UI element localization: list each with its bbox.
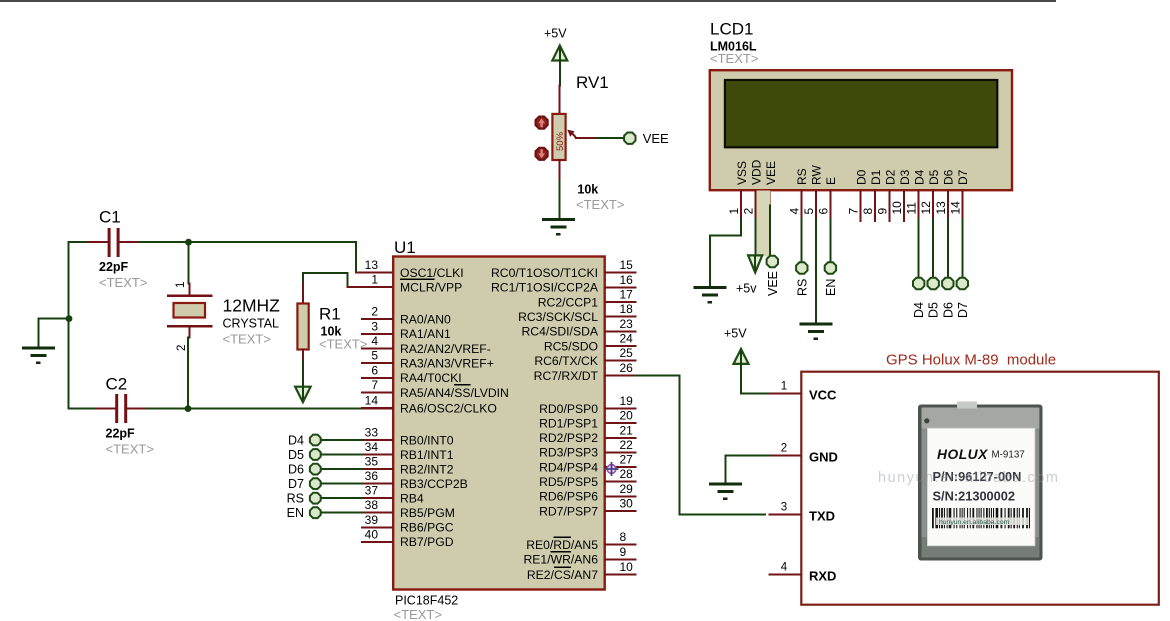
svg-text:2: 2 [176,345,188,351]
junction node C1/crystal [185,239,192,246]
svg-text:38: 38 [365,498,379,512]
svg-text:RC7/RX/DT: RC7/RX/DT [534,369,599,383]
svg-text:14: 14 [365,394,379,408]
svg-text:1: 1 [781,380,787,392]
svg-text:24: 24 [620,332,634,346]
RV1 bottom wire [558,160,560,181]
LCD1 LM016L body [710,70,1012,190]
svg-text:17: 17 [620,288,634,302]
terminal VEE (RV1) [624,133,635,144]
svg-text:D6: D6 [941,302,955,318]
svg-text:RE0/RD/AN5: RE0/RD/AN5 [526,538,598,552]
svg-text:RC4/SDI/SDA: RC4/SDI/SDA [521,325,598,339]
svg-text:VEE: VEE [766,271,780,296]
svg-text:6: 6 [371,363,378,377]
overline SS (RA5) [454,384,470,386]
svg-text:RB5/PGM: RB5/PGM [400,506,455,520]
svg-text:2: 2 [742,208,756,215]
terminal RS (port) [321,497,362,499]
svg-text:RE1/WR/AN6: RE1/WR/AN6 [524,553,599,567]
svg-text:3: 3 [371,319,378,333]
svg-text:8: 8 [861,208,875,215]
svg-text:RB0/INT0: RB0/INT0 [400,433,454,447]
VDD power band [757,191,771,257]
svg-text:D6: D6 [288,463,304,477]
terminal D4 (LCD) [913,278,924,289]
svg-text:22: 22 [620,438,634,452]
LCD pin 4 stub [800,190,802,219]
svg-text:50%: 50% [555,131,566,151]
wire LCD VDD [755,219,757,255]
svg-text:VDD: VDD [749,159,763,185]
overline MCLR [400,278,435,280]
svg-text:10: 10 [620,560,634,574]
svg-text:+5V: +5V [544,27,567,41]
svg-text:GND: GND [809,450,838,465]
LCD pin 1 stub [740,190,742,219]
svg-text:27: 27 [620,453,634,467]
svg-text:20: 20 [620,409,634,423]
potentiometer RV1 [558,86,560,114]
terminal D6 (LCD) [942,278,953,289]
svg-text:36: 36 [365,469,379,483]
wire LCD D6 [947,219,949,278]
pin 4 stub [362,348,392,350]
pin 30 stub [606,510,636,512]
GPS pin 3 stub [770,513,801,515]
crystal X1 12MHZ [167,294,213,297]
LCD pin 7 stub [860,190,862,221]
svg-text:40: 40 [365,527,379,541]
svg-text:D7: D7 [956,169,970,185]
svg-text:D5: D5 [927,302,941,318]
resistor R1 10k [302,284,304,304]
svg-text:+5V: +5V [724,327,747,341]
pin 39 stub [362,526,392,528]
svg-text:2: 2 [781,443,787,455]
capacitor C1 [69,241,89,243]
terminal RS (LCD) [796,262,807,273]
svg-text:<TEXT>: <TEXT> [576,197,624,212]
pin 29 stub [606,495,636,497]
terminal EN (port) [321,512,362,514]
pin 2 stub [362,318,392,320]
svg-text:hunyun.en.alibaba.com: hunyun.en.alibaba.com [939,519,1010,526]
pin 25 stub [606,360,636,362]
LCD pin 13 stub [947,190,949,219]
svg-text:RS: RS [795,168,809,185]
terminal D5 (port) [321,454,362,456]
pin 36 stub [362,483,392,485]
pin 40 stub [362,541,392,543]
terminal D5 (LCD) [928,278,939,289]
svg-text:C2: C2 [106,375,128,394]
pin 37 stub [362,497,392,499]
wire RC7/RX/DT to GPS TXD [636,376,766,515]
LCD pin 5 stub [815,190,817,219]
svg-text:RB4: RB4 [400,492,424,506]
svg-text:RS: RS [795,279,809,296]
svg-text:RA3/AN3/VREF+: RA3/AN3/VREF+ [400,357,494,371]
capacitor C2 [70,408,98,410]
svg-text:C1: C1 [99,208,121,227]
svg-text:10: 10 [890,201,904,215]
svg-text:D7: D7 [956,302,970,318]
pin 8 stub [606,544,636,546]
svg-text:D0: D0 [854,169,868,185]
LCD pin 10 stub [903,190,905,221]
wire +5V to GPS VCC [741,364,770,394]
svg-text:22pF: 22pF [99,260,129,274]
pin 5 stub [362,362,392,364]
svg-text:VSS: VSS [735,161,749,185]
svg-text:M-9137: M-9137 [992,450,1025,461]
pin 33 stub [362,439,392,441]
svg-text:13: 13 [934,201,948,215]
wire LCD D7 [961,219,963,278]
svg-text:RB6/PGC: RB6/PGC [400,521,454,535]
wire LCD RS [800,219,802,262]
svg-text:4: 4 [781,562,788,574]
LCD pin 9 stub [889,190,891,221]
svg-text:D4: D4 [912,302,926,318]
svg-text:RV1: RV1 [576,73,609,92]
svg-text:37: 37 [365,484,379,498]
LCD pin 3 stub [769,190,771,205]
svg-text:16: 16 [620,273,634,287]
terminal EN (LCD) [825,262,836,273]
svg-text:<TEXT>: <TEXT> [99,275,147,290]
svg-text:CRYSTAL: CRYSTAL [223,317,280,331]
svg-text:7: 7 [847,208,861,215]
svg-text:RXD: RXD [809,569,836,584]
wire crystal bottom net [189,327,191,338]
junction node C2/crystal [185,405,192,412]
ground left [22,348,55,363]
pin 3 stub [362,333,392,335]
pin 23 stub [606,330,636,332]
svg-text:U1: U1 [394,238,416,257]
svg-text:26: 26 [620,361,634,375]
svg-text:hunyun.en.alibaba.com: hunyun.en.alibaba.com [878,470,1059,486]
svg-text:D7: D7 [288,477,304,491]
LCD pin 6 stub [829,190,831,219]
svg-text:D5: D5 [927,169,941,185]
svg-text:34: 34 [365,440,379,454]
svg-text:EN: EN [287,506,304,520]
LCD pin 12 stub [932,190,934,219]
svg-text:25: 25 [620,346,634,360]
pin 34 stub [362,454,392,456]
pin 18 stub [606,316,636,318]
svg-text:GPS Holux M-89 module: GPS Holux M-89 module [886,352,1056,369]
svg-text:3: 3 [781,501,787,513]
LCD screen [725,80,997,147]
svg-text:VCC: VCC [809,387,837,402]
GPS Holux module photo [878,402,1059,561]
svg-text:RE2/CS/AN7: RE2/CS/AN7 [527,568,598,582]
terminal D7 (LCD) [957,278,968,289]
pin 6 stub [362,377,392,379]
svg-text:<TEXT>: <TEXT> [319,337,367,352]
LCD pin 14 stub [961,190,963,219]
svg-text:RA6/OSC2/CLKO: RA6/OSC2/CLKO [400,401,497,415]
pin 26 stub [606,375,636,377]
svg-text:6: 6 [816,208,830,215]
svg-text:21: 21 [620,423,634,437]
svg-text:12: 12 [919,201,933,215]
svg-text:+5v: +5v [736,282,757,296]
pin 9 stub [606,558,636,560]
svg-text:1: 1 [175,282,187,288]
svg-text:RC6/TX/CK: RC6/TX/CK [534,354,598,368]
svg-text:LCD1: LCD1 [710,20,753,39]
crosshair origin marker [605,462,619,476]
svg-text:RD5/PSP5: RD5/PSP5 [539,475,598,489]
pin 24 stub [606,345,636,347]
pin 19 stub [606,408,636,410]
svg-text:RD0/PSP0: RD0/PSP0 [539,402,598,416]
svg-text:12MHZ: 12MHZ [223,296,281,316]
RV1 up button [536,117,548,129]
pin 10 stub [606,574,636,576]
svg-text:23: 23 [620,317,634,331]
wire RV1 wiper to VEE [576,137,596,139]
wire OSC2 net to pin 14 [188,408,362,410]
GPS module outline [801,372,1159,605]
svg-text:D6: D6 [942,169,956,185]
GPS pin 4 stub [770,574,801,576]
overline CS (RE2) [554,566,571,568]
svg-text:RB7/PGD: RB7/PGD [400,535,454,549]
svg-text:RD4/PSP4: RD4/PSP4 [539,460,598,474]
svg-text:E: E [824,177,838,185]
svg-text:D3: D3 [898,169,912,185]
pin 35 stub [362,468,392,470]
svg-text:8: 8 [620,530,627,544]
svg-text:5: 5 [371,349,378,363]
RV1 down button [536,148,548,160]
power arrow down (R1 bottom) [295,387,311,403]
svg-text:EN: EN [824,279,838,296]
svg-text:RD2/PSP2: RD2/PSP2 [539,431,598,445]
svg-text:29: 29 [620,482,634,496]
svg-text:<TEXT>: <TEXT> [106,442,154,457]
pin 16 stub [606,286,636,288]
terminal D7 (port) [321,483,362,485]
svg-text:RA2/AN2/VREF-: RA2/AN2/VREF- [400,342,491,356]
svg-text:<TEXT>: <TEXT> [394,607,442,621]
pin 21 stub [606,437,636,439]
svg-text:R1: R1 [319,305,341,324]
svg-text:11: 11 [905,202,919,215]
svg-text:RA4/T0CKI: RA4/T0CKI [400,371,462,385]
svg-text:D2: D2 [883,169,897,185]
svg-text:RA1/AN1: RA1/AN1 [400,327,451,341]
svg-text:RD1/PSP1: RD1/PSP1 [539,416,598,430]
terminal D6 (port) [321,468,362,470]
svg-text:RB3/CCP2B: RB3/CCP2B [400,477,468,491]
wire LCD E [829,219,831,262]
svg-text:D4: D4 [288,434,304,448]
ground LCD VSS [694,288,727,303]
svg-text:28: 28 [620,467,634,481]
svg-text:9: 9 [876,208,890,215]
svg-text:18: 18 [620,302,634,316]
svg-text:13: 13 [365,258,379,272]
wire crystal top net [188,242,190,283]
svg-text:VEE: VEE [643,131,669,146]
svg-text:D4: D4 [913,169,927,185]
svg-text:RD7/PSP7: RD7/PSP7 [539,504,598,518]
svg-text:OSC1/CLKI: OSC1/CLKI [400,266,464,280]
wire GPS GND to ground [726,456,770,484]
wire LCD VSS to ground [710,219,741,287]
svg-text:9: 9 [620,545,627,559]
svg-text:4: 4 [371,334,378,348]
svg-text:D5: D5 [288,448,304,462]
pin 7 stub [362,392,392,394]
svg-text:MCLR/VPP: MCLR/VPP [400,280,462,294]
svg-text:RA5/AN4/SS/LVDIN: RA5/AN4/SS/LVDIN [400,386,509,400]
wire OSC1 net to pin 13 [189,242,357,272]
pin 15 stub [606,272,636,274]
LCD pin 8 stub [874,190,876,221]
overline WR (RE1) [551,551,571,553]
node junction left rail [66,315,73,322]
terminal VEE (LCD) [767,256,778,267]
svg-text:10k: 10k [577,183,598,197]
svg-text:RC0/T1OSO/T1CKI: RC0/T1OSO/T1CKI [491,266,598,280]
pin 14 stub [362,407,392,409]
ground RV1 [542,220,575,235]
svg-text:RB2/INT2: RB2/INT2 [400,462,454,476]
svg-text:RC3/SCK/SCL: RC3/SCK/SCL [518,310,598,324]
svg-text:5: 5 [802,208,816,215]
svg-text:PIC18F452: PIC18F452 [395,594,458,608]
svg-text:4: 4 [787,208,801,215]
pin 38 stub [362,512,392,514]
RV1 wiper arrow [571,133,576,139]
svg-text:35: 35 [365,455,379,469]
pin 27 stub [606,466,636,468]
svg-text:<TEXT>: <TEXT> [710,51,758,66]
wire ground arm [39,319,70,347]
svg-text:TXD: TXD [809,508,835,523]
svg-text:RS: RS [287,492,304,506]
wire MCLR net to pin 1 [303,273,348,287]
svg-text:VEE: VEE [764,161,778,185]
pin 28 stub [606,481,636,483]
wire left vertical rail [68,242,70,408]
svg-text:7: 7 [371,378,378,392]
power +5v arrow down (LCD VDD) [748,255,762,272]
svg-text:RD6/PSP6: RD6/PSP6 [539,490,598,504]
svg-text:14: 14 [948,201,962,215]
svg-text:30: 30 [620,497,634,511]
svg-text:2: 2 [371,305,378,319]
svg-text:RC5/SDO: RC5/SDO [544,339,598,353]
LCD pin 11 stub [918,190,920,219]
svg-text:19: 19 [620,394,634,408]
svg-text:15: 15 [620,258,634,272]
GPS pin 1 stub [770,392,801,394]
wire LCD RW to ground [815,219,817,323]
LCD pin 2 stub [755,190,757,219]
overline RD (RE0) [553,536,571,538]
svg-text:RB1/INT1: RB1/INT1 [400,448,454,462]
svg-text:RC1/T1OSI/CCP2A: RC1/T1OSI/CCP2A [491,281,599,295]
pin 20 stub [606,422,636,424]
frame top edge line [0,0,1056,2]
svg-text:S/N:21300002: S/N:21300002 [933,489,1016,504]
svg-text:D1: D1 [869,169,883,185]
svg-text:<TEXT>: <TEXT> [223,332,271,347]
svg-text:1: 1 [371,273,378,287]
ground GPS [709,484,742,499]
ground LCD RW [799,324,832,339]
svg-text:RD3/PSP3: RD3/PSP3 [539,446,598,460]
wire LCD D5 [932,219,934,278]
svg-text:39: 39 [365,513,379,527]
svg-text:22pF: 22pF [106,427,136,441]
svg-text:1: 1 [727,208,741,215]
svg-text:HOLUX: HOLUX [937,447,988,462]
svg-text:33: 33 [365,426,379,440]
GPS pin 2 stub [770,455,801,457]
svg-text:RC2/CCP1: RC2/CCP1 [538,295,598,309]
wire LCD VEE [769,206,771,256]
wire LCD D4 [918,219,920,278]
svg-text:RA0/AN0: RA0/AN0 [400,313,451,327]
op-amp U1 PIC18F452 body [393,257,605,590]
pin 22 stub [606,451,636,453]
svg-text:RW: RW [810,165,824,185]
pin 17 stub [606,301,636,303]
terminal D4 (port) [321,439,362,441]
